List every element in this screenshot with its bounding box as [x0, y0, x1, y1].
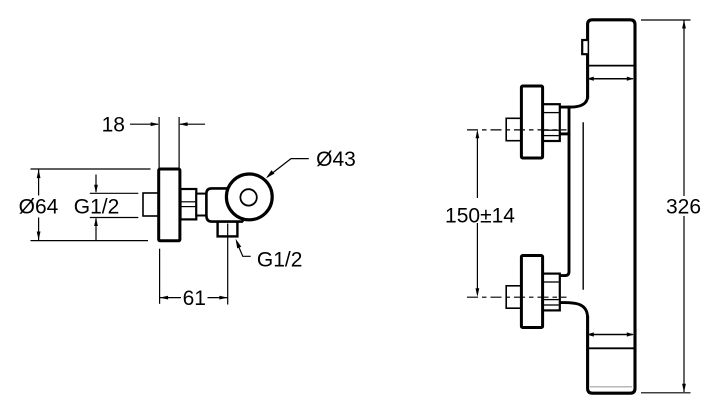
bottom wall flange [521, 256, 542, 328]
dimension G1/2 inlet arrows [95, 175, 97, 193]
retaining clip on bar [582, 40, 587, 54]
dimension 18 arrows [130, 123, 158, 125]
cartridge circle Ø43 [226, 174, 272, 220]
wall flange (escutcheon) [159, 169, 180, 241]
dimension Ø64 arrows [38, 170, 40, 196]
bottom hex nut [543, 274, 560, 311]
top hex nut [543, 104, 560, 141]
label Ø43 leader [267, 159, 309, 177]
faint internal line [590, 386, 632, 388]
dimension 326 arrows [683, 21, 685, 197]
svg-text:326: 326 [666, 196, 701, 219]
bottom internal line [589, 347, 634, 349]
dimension G1/2 inlet extension lines [90, 192, 139, 194]
svg-text:150±14: 150±14 [445, 205, 515, 228]
top union lower outline [560, 132, 571, 135]
threaded neck [196, 194, 206, 216]
inlet pipe stub G1/2 [143, 193, 159, 216]
bar body outline [588, 20, 635, 393]
dimension 326 extension lines [641, 19, 691, 21]
svg-text:G1/2: G1/2 [74, 196, 120, 219]
bottom pipe stub [506, 286, 521, 308]
top centerline [467, 129, 567, 131]
dimension 61 extension line left [159, 249, 161, 304]
svg-text:Ø64: Ø64 [19, 196, 59, 219]
label G1/2 outlet leader [237, 242, 251, 256]
svg-text:Ø43: Ø43 [316, 148, 356, 171]
bottom outlet fitting G1/2 [218, 221, 238, 236]
nut facet line 1 [182, 201, 196, 203]
top wall flange [521, 86, 542, 158]
hex nut [181, 189, 197, 219]
svg-text:61: 61 [183, 287, 206, 310]
bottom union lower outline into bar [560, 303, 588, 318]
dimension 61 arrows [160, 297, 181, 299]
top union upper outline into bar [561, 96, 588, 107]
bottom centerline [467, 296, 567, 298]
inner highlight line [582, 122, 584, 289]
top pipe stub [506, 118, 521, 140]
nut facet line 2 [182, 206, 196, 208]
bottom arrowed line [590, 334, 633, 336]
bar mid-section left edge [560, 106, 569, 276]
top arrowed line [590, 78, 633, 80]
inner circle [240, 189, 256, 205]
svg-text:G1/2: G1/2 [257, 249, 303, 272]
dimension 150±14 arrows [476, 132, 478, 199]
svg-text:18: 18 [102, 114, 125, 137]
top internal line [589, 65, 634, 67]
dimension 18 extension lines [158, 117, 160, 168]
valve body [206, 188, 250, 221]
outlet centerline [227, 224, 229, 305]
dimension Ø64 extension lines [31, 168, 151, 170]
